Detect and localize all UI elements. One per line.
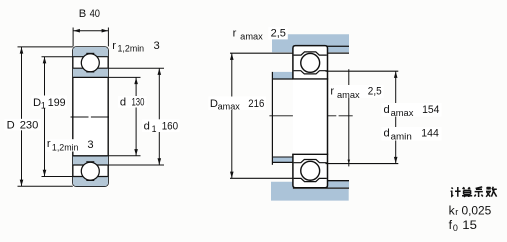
label d1 160 — [142, 119, 180, 134]
svg-text:130: 130 — [132, 97, 145, 109]
d1 dimension line — [158, 68, 160, 165]
housing bottom block — [271, 182, 349, 201]
housing top bore line — [293, 45, 349, 47]
Da extension line top — [230, 52, 293, 54]
top section outer ring groove — [294, 52, 327, 55]
svg-text:r: r — [47, 138, 51, 150]
ball bottom right figure — [301, 161, 320, 180]
top section inner ring groove — [294, 71, 327, 74]
label r12min top — [112, 40, 159, 54]
damin dimension line — [348, 69, 350, 166]
ball top right figure — [301, 53, 320, 72]
svg-text:d: d — [120, 97, 126, 109]
svg-text:154: 154 — [422, 104, 439, 116]
outer ring top bar — [73, 47, 108, 57]
svg-text:199: 199 — [48, 97, 66, 109]
housing bottom bore line — [293, 187, 349, 189]
B dimension extension lines — [72, 28, 74, 47]
svg-text:3: 3 — [154, 40, 160, 52]
D dimension line — [21, 47, 23, 186]
label Damax 216 — [209, 97, 267, 112]
label damax 154 — [382, 103, 442, 118]
spacer bottom line top — [328, 52, 350, 54]
bottom section inner ring groove — [294, 160, 327, 163]
svg-text:amax: amax — [218, 102, 241, 112]
da extension line top — [326, 70, 399, 72]
label r12min bottom — [46, 138, 94, 152]
outer ring bottom bar — [73, 177, 108, 187]
glyph shu — [486, 187, 490, 190]
label d 130 — [118, 96, 147, 109]
d1 dimension extension lines — [108, 67, 164, 69]
svg-text:1,2min: 1,2min — [118, 43, 145, 53]
glyph suan — [463, 187, 470, 189]
axis line left figure — [71, 116, 110, 118]
bottom section outer ring groove — [294, 178, 327, 181]
svg-text:r: r — [112, 40, 116, 52]
ball top — [81, 54, 99, 72]
svg-text:40: 40 — [90, 8, 100, 20]
bottom right spacer ring — [328, 181, 350, 187]
svg-text:1: 1 — [152, 124, 157, 134]
shaft shoulder face line — [271, 72, 273, 165]
label D1 199 — [32, 96, 68, 111]
label kr 0,025 — [449, 203, 492, 217]
spacer top line bottom — [328, 180, 350, 182]
ring boundary lines top section — [73, 56, 108, 58]
glyph ji — [451, 188, 454, 197]
ring boundary lines bottom section — [73, 155, 108, 157]
svg-text:0,025: 0,025 — [462, 203, 492, 217]
svg-text:B: B — [79, 8, 86, 20]
bottom section bore edge line — [292, 153, 328, 155]
label damin 144 — [382, 127, 442, 141]
axis line right figure — [269, 115, 352, 117]
svg-text:amax: amax — [240, 32, 263, 42]
svg-text:2,5: 2,5 — [271, 27, 286, 39]
svg-text:1: 1 — [41, 101, 46, 111]
housing top block — [272, 34, 349, 52]
shaft shoulder bar bottom — [272, 157, 293, 162]
da extension line bottom — [326, 163, 399, 165]
svg-text:D: D — [33, 97, 41, 109]
svg-text:amin: amin — [391, 131, 412, 141]
svg-text:216: 216 — [248, 98, 264, 110]
ball bottom — [81, 162, 99, 180]
svg-text:r: r — [233, 27, 237, 39]
label f0 15 — [449, 218, 478, 233]
svg-text:d: d — [144, 120, 150, 132]
inner ring top bar — [73, 68, 108, 77]
svg-text:d: d — [384, 128, 390, 140]
D1 dimension line — [44, 57, 46, 177]
svg-text:r: r — [455, 207, 458, 217]
top section bore edge line — [292, 78, 328, 80]
label r amax 2,5 top — [233, 27, 288, 42]
svg-text:3: 3 — [87, 139, 93, 151]
inner ring bottom bar — [73, 156, 108, 165]
Damax dimension line — [231, 53, 233, 178]
svg-text:2,5: 2,5 — [368, 86, 382, 98]
svg-text:1,2min: 1,2min — [52, 142, 79, 152]
glyph xi — [475, 187, 483, 195]
D dimension extension lines — [18, 46, 73, 48]
svg-text:amax: amax — [337, 90, 360, 100]
svg-text:r: r — [330, 86, 334, 98]
damax dimension line — [395, 71, 397, 163]
svg-text:160: 160 — [162, 120, 178, 132]
svg-text:0: 0 — [453, 223, 458, 233]
d dimension line — [135, 77, 137, 155]
B dimension line — [73, 30, 108, 32]
svg-text:D: D — [7, 119, 15, 131]
D1 dimension extension lines — [42, 56, 73, 58]
label: calculation factors (Chinese, hand-drawn strokes) — [451, 187, 497, 197]
svg-text:15: 15 — [462, 218, 477, 232]
svg-text:144: 144 — [421, 128, 439, 140]
top right spacer ring — [328, 47, 350, 52]
svg-text:230: 230 — [20, 119, 39, 131]
bearing outline — [73, 47, 108, 186]
label D 230 — [5, 119, 42, 132]
svg-text:amax: amax — [391, 108, 414, 118]
groove chords bottom ball — [86, 161, 94, 163]
svg-text:d: d — [384, 104, 390, 116]
Da extension line bottom — [230, 177, 293, 179]
d dimension extension lines — [108, 76, 140, 78]
bearing outline right figure — [293, 46, 328, 188]
groove chords top ball — [86, 52, 94, 54]
label r amax 2,5 middle — [329, 85, 384, 100]
shaft shoulder bar top — [272, 72, 293, 79]
